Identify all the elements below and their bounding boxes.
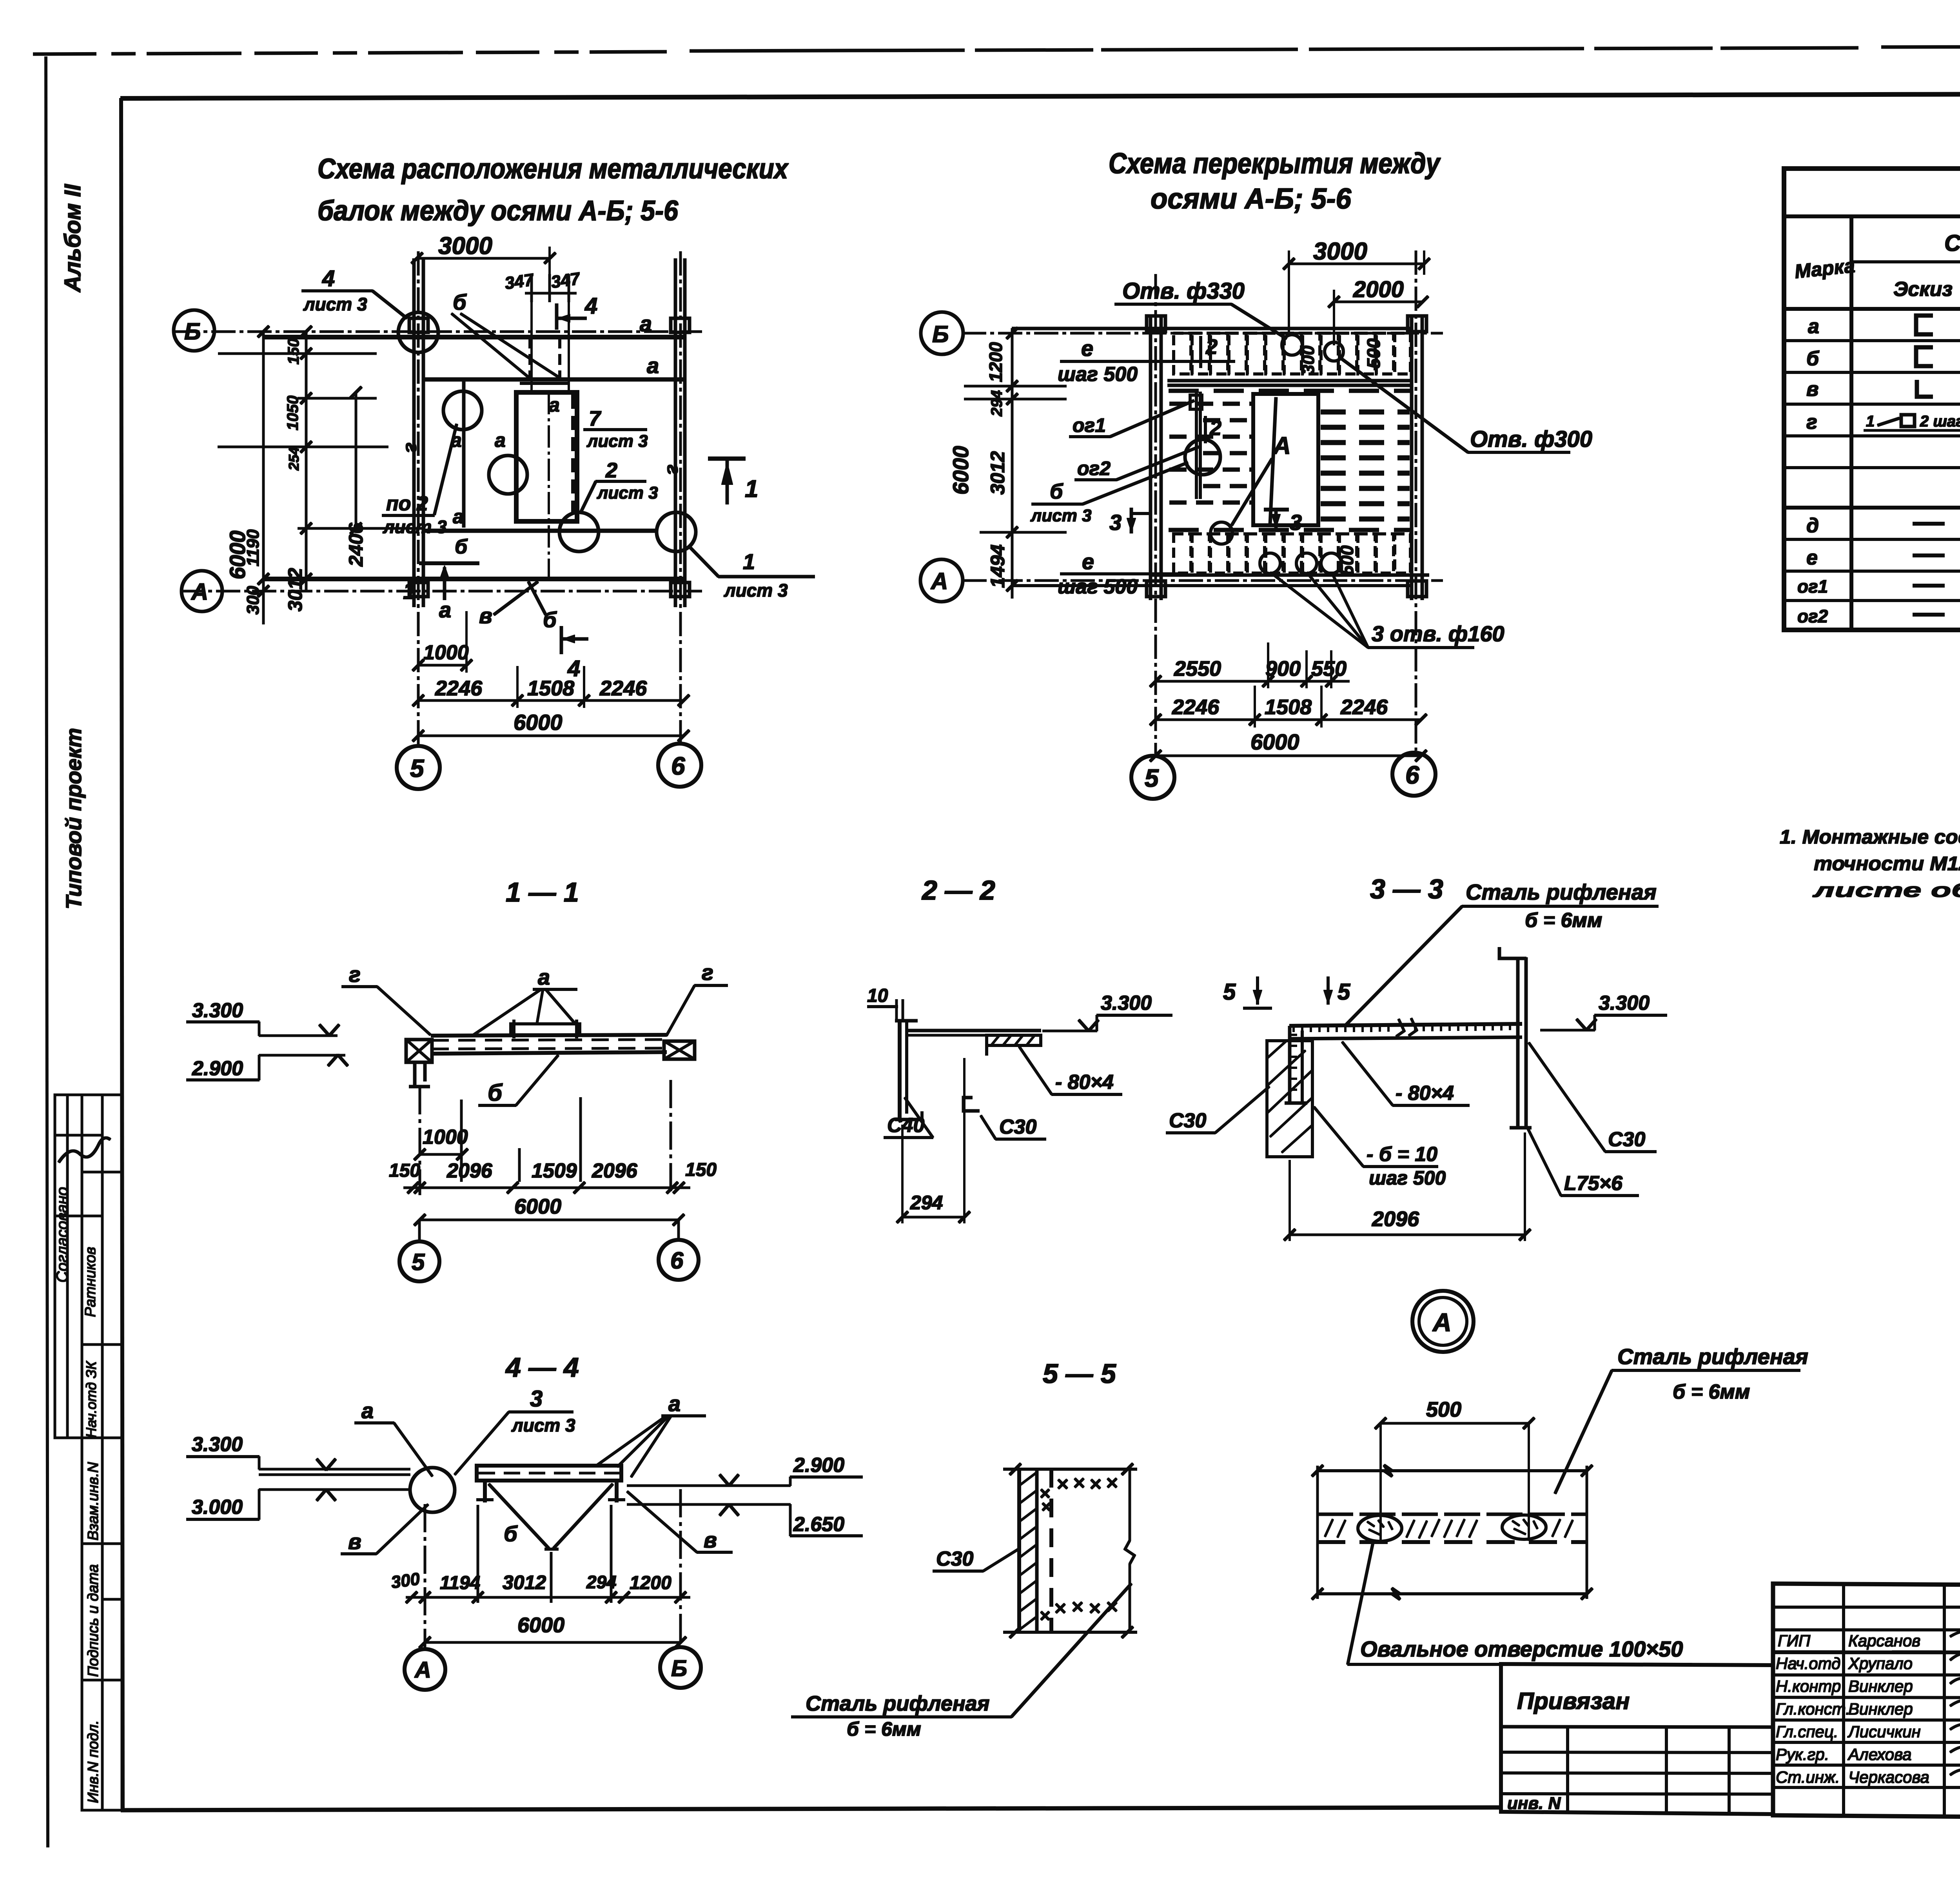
svg-text:С30: С30 (1608, 1128, 1645, 1151)
svg-text:в: в (348, 1529, 361, 1554)
bottom dim plan2 6000 (1156, 755, 1421, 757)
row д (1806, 510, 1960, 538)
detail circle on col5 top (398, 312, 438, 352)
svg-text:Нач.отд ЗК: Нач.отд ЗК (83, 1361, 99, 1438)
svg-text:балок между осями А-Б; 5-6: балок между осями А-Б; 5-6 (318, 195, 679, 227)
bottom dims plan2: 2550 900 550 (1156, 680, 1349, 682)
section mark 4 bottom (560, 626, 563, 654)
opening inner slant line (1270, 397, 1276, 524)
concrete wall (1267, 1041, 1312, 1157)
oval hole left (1358, 1515, 1402, 1541)
svg-text:б: б (543, 607, 557, 632)
chain ticks (258, 326, 361, 597)
svg-text:Н.контр: Н.контр (1776, 1677, 1841, 1695)
small circle on leader (1210, 522, 1232, 544)
band left edge (1317, 1466, 1319, 1599)
svg-text:Б: Б (184, 318, 201, 345)
svg-text:6: 6 (671, 752, 685, 780)
rotated dim texts (225, 338, 367, 615)
svg-text:2096: 2096 (446, 1159, 493, 1182)
svg-text:С30: С30 (936, 1548, 973, 1570)
strip 3-3 (1290, 1024, 1522, 1026)
svg-text:а: а (549, 394, 560, 416)
svg-text:2246: 2246 (435, 677, 483, 700)
svg-text:3: 3 (530, 1386, 543, 1412)
right edge 5-5 (1129, 1469, 1131, 1541)
column axis6 (674, 259, 677, 607)
svg-text:лист 3: лист 3 (303, 294, 367, 314)
svg-text:5: 5 (1145, 764, 1159, 792)
svg-text:г: г (663, 463, 684, 475)
beam б (423, 529, 657, 533)
svg-text:Карсанов: Карсанов (1848, 1631, 1920, 1650)
svg-text:Инв.N подл.: Инв.N подл. (85, 1720, 102, 1803)
svg-text:2096: 2096 (1372, 1207, 1419, 1231)
roles column (1776, 1631, 1929, 1786)
svg-text:2: 2 (1205, 335, 1218, 359)
axis circle Б (174, 310, 214, 351)
sidebar vertical texts (54, 183, 110, 1803)
svg-text:Винклер: Винклер (1848, 1677, 1913, 1695)
column 5 plan2 (1149, 316, 1152, 600)
title block left columns grid (1773, 1584, 1960, 1815)
dashed flange line (1050, 1469, 1053, 1632)
detail circle col6 (657, 512, 696, 552)
title block texts (1776, 1605, 1960, 1850)
svg-text:300: 300 (390, 1569, 421, 1592)
axis А line plan2 (963, 580, 1443, 582)
svg-text:6: 6 (670, 1247, 684, 1274)
svg-text:6000: 6000 (1250, 729, 1299, 754)
beam а along Б (263, 335, 684, 339)
svg-text:А: А (930, 568, 948, 594)
dim 2000 plan2 (1334, 301, 1423, 303)
beam plate sect4 (477, 1466, 621, 1481)
svg-text:А: А (414, 1657, 431, 1683)
slab top line (1012, 327, 1412, 330)
beam strip 1-1 (431, 1035, 666, 1036)
posts sect4 (483, 1481, 486, 1502)
svg-text:1: 1 (1866, 413, 1875, 430)
svg-text:Альбом II: Альбом II (60, 183, 85, 293)
axis 5 line plan2 (1155, 274, 1157, 753)
row ог1 (1797, 576, 1960, 597)
svg-text:3012: 3012 (284, 568, 306, 611)
row е (1806, 546, 1960, 569)
svg-text:е: е (1806, 546, 1818, 569)
svg-text:д: д (1806, 514, 1819, 537)
svg-text:300: 300 (243, 586, 263, 615)
svg-text:лист 3: лист 3 (597, 483, 658, 503)
svg-text:2.900: 2.900 (192, 1057, 243, 1080)
svg-text:Сечение: Сечение (1944, 230, 1960, 256)
column axis5 (413, 259, 416, 607)
verticals below sect4 (424, 1504, 426, 1648)
section mark 1 left (419, 562, 479, 565)
svg-text:7: 7 (589, 407, 602, 430)
svg-text:150: 150 (285, 338, 302, 365)
svg-text:300: 300 (1299, 345, 1318, 374)
axis circle 6 (658, 744, 701, 787)
detail circle box bottom (559, 512, 599, 552)
svg-text:Схема расположения металлическ: Схема расположения металлических (318, 153, 789, 185)
svg-text:- 80×4: - 80×4 (1396, 1082, 1454, 1105)
sidebar lower table (Взам.инв.N / Подпись и дата / Инв.N подл.) (82, 1438, 122, 1810)
svg-text:5 — 5: 5 — 5 (1043, 1358, 1116, 1389)
svg-text:по 2: по 2 (386, 492, 428, 515)
svg-text:150: 150 (685, 1159, 717, 1180)
svg-text:6000: 6000 (948, 446, 973, 495)
axis circle А (181, 571, 222, 611)
svg-text:2.650: 2.650 (793, 1513, 844, 1536)
beam а second (423, 378, 684, 381)
axis circle А plan2 (920, 559, 963, 602)
svg-text:Б: Б (932, 321, 949, 347)
opening rect (1253, 394, 1318, 525)
row ог2 (1797, 606, 1960, 626)
svg-text:б: б (455, 535, 468, 558)
svg-text:5: 5 (412, 1249, 425, 1275)
svg-text:1200: 1200 (985, 342, 1006, 382)
svg-text:б = 6мм: б = 6мм (1525, 909, 1602, 932)
axis circle 5 (397, 746, 440, 789)
right support block (664, 1041, 695, 1059)
band top line (1318, 1465, 1587, 1476)
svg-text:900: 900 (1265, 657, 1301, 680)
svg-text:- 80×4: - 80×4 (1055, 1071, 1114, 1094)
svg-text:3.300: 3.300 (1599, 992, 1650, 1014)
svg-text:б = 6мм: б = 6мм (1673, 1381, 1750, 1403)
bottom plate band (1174, 534, 1410, 573)
svg-text:6: 6 (1405, 761, 1419, 789)
dims sect4 (406, 1597, 690, 1599)
inner box (opening) (516, 392, 577, 521)
bottom dim 6000 (418, 735, 684, 737)
svg-text:1. Монтажные соединения выполн: 1. Монтажные соединения выполнять на бол… (1780, 826, 1960, 848)
outer top dashed border (33, 46, 1960, 54)
svg-text:лист 3: лист 3 (511, 1415, 575, 1435)
svg-text:1494: 1494 (987, 544, 1009, 588)
hole circle 330 (1282, 335, 1302, 355)
svg-text:Ратников: Ратников (82, 1247, 99, 1317)
axis 6 line (680, 252, 682, 743)
axis 5 line (417, 252, 419, 745)
table outer (1784, 169, 1960, 630)
svg-text:3 отв. ф160: 3 отв. ф160 (1372, 621, 1504, 646)
svg-text:3000: 3000 (1313, 238, 1367, 265)
dim 2096 3-3 (1290, 1234, 1525, 1236)
svg-text:150: 150 (389, 1160, 420, 1181)
svg-text:1200: 1200 (630, 1573, 671, 1593)
svg-text:347: 347 (504, 270, 536, 293)
svg-text:лист 3: лист 3 (383, 517, 447, 537)
bottom dim 1000 (418, 664, 466, 666)
svg-text:Взам.инв.N: Взам.инв.N (85, 1462, 102, 1541)
svg-text:2406: 2406 (345, 523, 367, 567)
band bottom line (1318, 1588, 1587, 1599)
svg-text:а: а (668, 1391, 681, 1416)
svg-text:в: в (704, 1528, 717, 1552)
axis circle Б plan2 (921, 312, 963, 354)
axis circle Б sect4 (660, 1647, 701, 1688)
svg-text:г: г (1806, 411, 1817, 434)
svg-text:б: б (453, 290, 467, 314)
svg-text:3012: 3012 (987, 451, 1009, 495)
big circle sect4 (410, 1468, 455, 1512)
svg-text:Подпись и дата: Подпись и дата (85, 1564, 102, 1677)
top band verticals dashed (529, 338, 531, 379)
svg-text:Привязан: Привязан (1517, 1688, 1630, 1714)
svg-text:1000: 1000 (423, 1126, 468, 1149)
svg-text:3.000: 3.000 (192, 1496, 243, 1519)
svg-text:а: а (1808, 315, 1819, 338)
svg-text:1: 1 (745, 475, 758, 503)
svg-text:2 шаг 500: 2 шаг 500 (1920, 413, 1960, 430)
band right edge (1586, 1466, 1588, 1599)
svg-text:4 — 4: 4 — 4 (505, 1352, 579, 1383)
svg-text:347: 347 (550, 269, 582, 292)
svg-text:2096: 2096 (592, 1159, 638, 1182)
svg-text:3012: 3012 (503, 1571, 546, 1593)
right angle post 3-3 (1517, 958, 1519, 1128)
svg-text:г: г (401, 441, 423, 453)
svg-text:С30: С30 (999, 1116, 1036, 1138)
row а (1808, 315, 1960, 338)
bottom dims plan2: 2246 1508 2246 (1156, 719, 1421, 721)
section mark 3 right (Т3) (1264, 508, 1289, 511)
svg-text:б: б (504, 1521, 518, 1546)
left dim chain plan2 (1011, 328, 1013, 598)
svg-text:б: б (1050, 480, 1063, 503)
svg-text:1050: 1050 (284, 396, 301, 430)
svg-text:2: 2 (1209, 416, 1221, 440)
svg-text:3000: 3000 (438, 232, 492, 259)
svg-text:А: А (191, 579, 208, 605)
svg-text:3.300: 3.300 (1101, 992, 1152, 1014)
svg-text:ог2: ог2 (1077, 457, 1111, 479)
svg-text:2000: 2000 (1353, 277, 1404, 302)
svg-text:6000: 6000 (514, 710, 563, 735)
svg-text:шаг 500: шаг 500 (1058, 363, 1138, 386)
svg-text:е: е (1082, 549, 1094, 574)
strip stipple (1325, 1519, 1573, 1538)
svg-text:1 — 1: 1 — 1 (506, 877, 579, 907)
svg-text:лист 3: лист 3 (586, 432, 648, 451)
comb ticks on strip (1294, 1024, 1510, 1032)
svg-text:б: б (488, 1080, 503, 1106)
axis Б line plan2 (962, 332, 1443, 334)
svg-text:шаг 500: шаг 500 (1058, 575, 1138, 598)
axis Б line (176, 331, 702, 333)
svg-text:2246: 2246 (1172, 695, 1220, 719)
svg-text:254: 254 (286, 447, 302, 471)
svg-text:3.300: 3.300 (192, 999, 243, 1022)
svg-text:6000: 6000 (517, 1613, 564, 1637)
svg-text:б = 6мм: б = 6мм (847, 1718, 921, 1740)
left dim chain lines (263, 332, 265, 624)
channel С40 vertical (898, 1021, 901, 1120)
svg-text:листе общих данных: листе общих данных (1813, 879, 1960, 901)
svg-text:лист 3: лист 3 (1030, 506, 1092, 525)
svg-text:Сталь рифленая: Сталь рифленая (1466, 880, 1657, 904)
svg-text:1: 1 (403, 578, 416, 604)
connection line with по2 (463, 380, 465, 527)
svg-text:а: а (640, 311, 652, 336)
detail circle box left (489, 455, 527, 494)
svg-text:ог1: ог1 (1797, 576, 1828, 597)
beam а bottom (263, 577, 684, 581)
svg-text:294: 294 (586, 1572, 617, 1592)
dim 6000 sect4 (425, 1642, 681, 1644)
table verticals (1850, 216, 1853, 630)
svg-text:1509: 1509 (532, 1159, 577, 1182)
svg-text:4: 4 (584, 293, 597, 319)
svg-text:500: 500 (1337, 545, 1357, 575)
svg-text:А: А (1432, 1308, 1452, 1337)
svg-text:в: в (1806, 378, 1818, 401)
svg-text:ГИП: ГИП (1778, 1631, 1811, 1650)
signature near Ратников (59, 1138, 110, 1162)
axis 6 line plan2 (1415, 251, 1417, 750)
big circle left panel (1185, 439, 1220, 475)
svg-text:6000: 6000 (514, 1195, 561, 1218)
svg-text:Лисичкин: Лисичкин (1847, 1722, 1921, 1741)
svg-text:в: в (479, 603, 492, 628)
svg-text:е: е (1081, 336, 1093, 361)
svg-text:2246: 2246 (1340, 695, 1388, 719)
svg-text:2550: 2550 (1174, 657, 1221, 680)
weld marks top (1041, 1479, 1116, 1510)
sidebar upper table (Согласовано) (55, 1095, 122, 1438)
dim 3000 plan2 (1289, 263, 1424, 265)
dim 6000 1-1 (420, 1219, 679, 1221)
svg-text:1194: 1194 (440, 1573, 480, 1593)
axis circle 6 sect1 (659, 1240, 699, 1280)
svg-text:Отв. ф300: Отв. ф300 (1470, 426, 1592, 452)
svg-text:а: а (453, 506, 464, 528)
three hole circles bottom (1260, 553, 1280, 573)
svg-text:б: б (1806, 347, 1820, 370)
С30 bracket (964, 1098, 979, 1111)
svg-text:10: 10 (867, 985, 888, 1006)
column 6 plan2 (1410, 316, 1413, 600)
svg-text:5: 5 (1338, 979, 1350, 1005)
row б (1806, 347, 1960, 370)
left panel vertical beam (1195, 392, 1198, 499)
svg-text:а: а (538, 965, 550, 989)
svg-text:Нач.отд: Нач.отд (1776, 1654, 1840, 1673)
dim 3000 top (417, 258, 550, 259)
axis circle 5 plan2 (1131, 756, 1174, 799)
outer left border line (46, 57, 48, 1847)
svg-text:Гл.спец.: Гл.спец. (1776, 1722, 1838, 1741)
hatched plate -80x4 (987, 1035, 1041, 1045)
top plate detail (511, 1024, 580, 1035)
svg-text:Согласовано: Согласовано (54, 1187, 71, 1283)
svg-text:1000: 1000 (423, 641, 469, 664)
long dashed line y993 (1169, 389, 1410, 393)
axis circle 5 sect1 (399, 1241, 439, 1281)
svg-text:294: 294 (910, 1192, 943, 1214)
svg-text:Сталь рифленая: Сталь рифленая (1617, 1344, 1808, 1369)
svg-text:L75×6: L75×6 (1564, 1172, 1623, 1195)
svg-text:г: г (702, 960, 713, 985)
extension lines (218, 353, 376, 355)
strip break mark (1396, 1018, 1417, 1036)
svg-text:г: г (349, 962, 361, 987)
svg-text:Схема перекрытия между: Схема перекрытия между (1109, 147, 1441, 180)
bottom line 5-5 (1004, 1631, 1137, 1633)
title block outer (1773, 1584, 1960, 1821)
dim 347 347 (531, 274, 533, 302)
svg-text:3.300: 3.300 (192, 1433, 243, 1456)
svg-text:2: 2 (605, 459, 617, 482)
svg-text:Гл.конст.: Гл.конст. (1776, 1700, 1850, 1718)
svg-text:а: а (495, 429, 506, 451)
svg-text:лист 3: лист 3 (724, 580, 788, 601)
svg-text:Алехова: Алехова (1847, 1745, 1911, 1764)
svg-text:3: 3 (1109, 510, 1122, 535)
top plate band (1174, 333, 1410, 374)
svg-text:осями А-Б; 5-6: осями А-Б; 5-6 (1151, 182, 1352, 215)
svg-text:2.900: 2.900 (793, 1454, 844, 1477)
row в (1806, 378, 1960, 401)
svg-text:ог2: ог2 (1797, 606, 1828, 626)
svg-text:Типовой проект: Типовой проект (61, 728, 86, 909)
svg-text:3 — 3: 3 — 3 (1370, 874, 1443, 904)
table horizontals (1784, 215, 1960, 218)
signatures (1950, 1627, 1960, 1776)
svg-text:4: 4 (322, 266, 335, 291)
svg-text:шаг 500: шаг 500 (1369, 1167, 1446, 1189)
right panel dashed rows (1321, 412, 1409, 519)
detail circle А big (1412, 1291, 1474, 1352)
svg-text:ог1: ог1 (1073, 414, 1106, 436)
top line 5-5 (1004, 1468, 1137, 1470)
svg-text:инв. N: инв. N (1507, 1794, 1561, 1813)
V brace sect4 (489, 1484, 549, 1548)
axis circle А sect4 (405, 1649, 445, 1690)
hole circle 300 (1325, 342, 1343, 361)
svg-text:6000: 6000 (225, 530, 250, 579)
svg-text:294: 294 (988, 390, 1005, 417)
svg-text:5: 5 (410, 754, 425, 782)
svg-text:500: 500 (1363, 338, 1384, 368)
row г (1806, 411, 1960, 434)
svg-text:1508: 1508 (527, 677, 574, 700)
bottom dim 2246 1508 2246 (418, 700, 684, 702)
bottom dashed line (1169, 528, 1410, 532)
svg-text:5: 5 (1223, 979, 1236, 1005)
svg-text:550: 550 (1311, 657, 1347, 680)
svg-text:Отв. ф330: Отв. ф330 (1122, 278, 1245, 304)
svg-text:- б = 10: - б = 10 (1367, 1143, 1437, 1166)
svg-text:Рук.гр.: Рук.гр. (1776, 1745, 1829, 1764)
embedded channel С30 (1289, 1026, 1291, 1103)
svg-text:А: А (1272, 432, 1291, 459)
svg-text:1: 1 (743, 549, 755, 574)
svg-text:500: 500 (1426, 1398, 1461, 1421)
svg-text:а: а (647, 353, 659, 378)
svg-text:1508: 1508 (1265, 695, 1312, 719)
leader to А (1232, 459, 1272, 525)
svg-text:Эскиз: Эскиз (1893, 278, 1953, 301)
slab bottom line (1151, 574, 1429, 577)
dim row 150 2096 1509 2096 150 (404, 1187, 690, 1189)
detail circle по2 (443, 391, 482, 430)
oval hole right (1502, 1515, 1546, 1539)
svg-text:С30: С30 (1169, 1109, 1206, 1132)
